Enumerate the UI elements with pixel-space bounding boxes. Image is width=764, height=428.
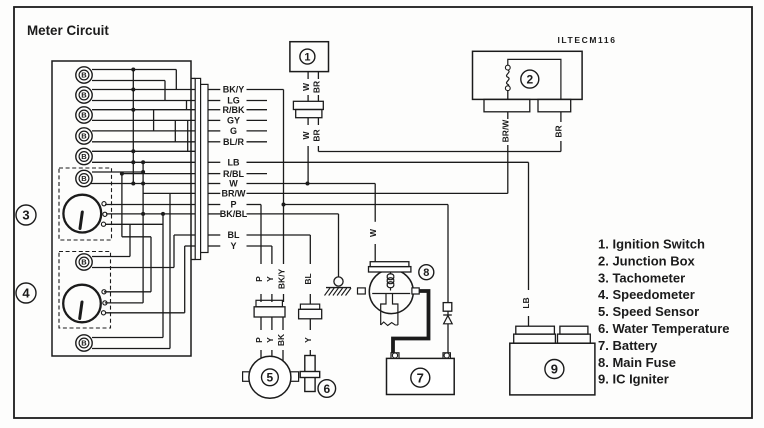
main fuse cap — [369, 267, 411, 272]
junction W row — [141, 182, 145, 186]
wire feed to main fuse / diode — [284, 204, 449, 206]
cascade wire GY row to BL/R row — [174, 120, 176, 141]
main fuse left tab — [358, 288, 366, 294]
svg-text:9. IC Igniter: 9. IC Igniter — [598, 372, 669, 387]
wire dead-end stub BL/R — [247, 141, 268, 143]
svg-text:BR/W: BR/W — [222, 189, 246, 199]
svg-text:3. Tachometer: 3. Tachometer — [598, 270, 685, 285]
svg-text:1. Ignition Switch: 1. Ignition Switch — [598, 237, 705, 252]
speedo terminal c — [101, 311, 105, 315]
junction BK/BL row 2 — [161, 212, 165, 216]
svg-text:BK/Y: BK/Y — [277, 269, 287, 290]
wire row y=120.4 (GY) — [92, 119, 195, 121]
wire speedo lamp top up to tach terminal c row — [92, 256, 130, 258]
IC igniter right tab — [558, 334, 591, 343]
junction tach lamp top — [141, 170, 145, 174]
wire row y=100.5 (LG) — [92, 100, 195, 102]
speed sensor right tab — [288, 372, 299, 382]
wire stub to label Y — [208, 245, 220, 247]
wire fuse to box bottom — [507, 91, 509, 100]
wire stub to label R/BK — [208, 109, 220, 111]
wire stub to label R/BL — [208, 173, 220, 175]
wire LB row down to speedo terminal b — [142, 162, 144, 303]
indicator lamp 2 — [76, 87, 92, 103]
svg-text:7: 7 — [417, 370, 424, 385]
wire stub to label GY — [208, 119, 220, 121]
junction BK/BL row — [141, 212, 145, 216]
wire BR down — [317, 146, 319, 152]
junction bus y=162.3 — [131, 160, 135, 164]
wire step box to bar top — [191, 77, 195, 79]
svg-text:R/BL: R/BL — [223, 169, 244, 179]
wire stub to label LG — [208, 100, 220, 102]
wire stub to label W — [208, 183, 220, 185]
bottom indicator lamp — [76, 335, 92, 351]
svg-text:Y: Y — [265, 337, 275, 343]
wire row y=213.9 (BK/BL) — [106, 213, 195, 215]
svg-text:8. Main Fuse: 8. Main Fuse — [598, 355, 676, 370]
speed sensor 5 body — [249, 356, 291, 398]
wire stub to label BK/BL — [208, 213, 220, 215]
ground terminal circle — [334, 277, 343, 286]
svg-text:W: W — [301, 131, 311, 140]
IC igniter 9 box — [510, 343, 595, 395]
tach terminal a — [102, 202, 106, 206]
svg-text:R/BK: R/BK — [223, 105, 245, 115]
wire W from switch — [307, 72, 309, 79]
wire dead-end stub R/BK — [247, 109, 268, 111]
svg-text:W: W — [368, 228, 378, 237]
speedo terminal a — [102, 290, 106, 294]
svg-text:B: B — [81, 71, 87, 80]
wire W below connector — [307, 118, 309, 125]
wire BR/W from label to junction box — [247, 192, 508, 194]
cascade wire bulb1-top to BK/Y — [92, 69, 176, 71]
junction bus y=89.5 — [131, 88, 135, 92]
tach terminal c — [101, 222, 105, 226]
junction box left tab — [484, 99, 530, 111]
fuse coil element — [387, 272, 394, 291]
junction box 2 outline — [473, 51, 583, 99]
label 6 water temp — [318, 380, 336, 398]
wire dead-end stub LG — [247, 100, 268, 102]
tachometer dashed enclosure — [59, 168, 112, 240]
svg-text:BK/Y: BK/Y — [223, 85, 245, 95]
junction R/BL row — [120, 172, 124, 176]
wire row y=235.0 (BL) — [174, 234, 195, 236]
wire P from label to speed sensor — [247, 204, 262, 206]
wire step box to bar bottom — [191, 259, 195, 261]
wire dead-end stub G — [247, 130, 268, 132]
wire BK/Y from label to speed sensor — [247, 89, 284, 91]
svg-text:LB: LB — [228, 158, 240, 168]
fuse terminal bottom — [505, 86, 510, 91]
wire P below connector — [260, 317, 262, 330]
svg-text:BL: BL — [303, 273, 313, 284]
svg-text:G: G — [230, 126, 237, 136]
connector bar left housing — [195, 78, 200, 259]
svg-text:BL/R: BL/R — [223, 137, 244, 147]
svg-text:2. Junction Box: 2. Junction Box — [598, 253, 696, 268]
battery 7 box — [387, 358, 455, 394]
svg-text:P: P — [254, 276, 264, 282]
svg-text:P: P — [254, 337, 264, 343]
junction box internal circuit — [508, 59, 561, 99]
wire BL from label to water temp sensor — [247, 234, 311, 236]
junction bus y=69.5 — [131, 68, 135, 72]
water temp sensor 6 body — [305, 356, 315, 392]
cascade wire GY row to spare pin row — [187, 120, 189, 151]
wire BL row down to speedo lamp bottom — [173, 235, 175, 268]
wire dead-end stub GY — [247, 119, 268, 121]
label 4 speedometer — [16, 283, 36, 303]
wire W to connector — [307, 95, 309, 101]
svg-text:5. Speed Sensor: 5. Speed Sensor — [598, 304, 699, 319]
indicator lamp 3 — [76, 107, 92, 123]
svg-text:4. Speedometer: 4. Speedometer — [598, 287, 695, 302]
wire bottom lamp bottom up to BR/W row — [92, 348, 170, 350]
indicator lamp 1 — [76, 67, 92, 83]
IC igniter left tab — [514, 334, 556, 343]
svg-text:B: B — [81, 91, 87, 100]
wire tach lamp top row — [92, 171, 143, 173]
svg-text:W: W — [301, 82, 311, 91]
svg-text:3: 3 — [22, 208, 29, 223]
wire R/BL to speedo terminal a — [121, 174, 123, 237]
svg-text:BR: BR — [311, 129, 321, 141]
battery left terminal — [391, 353, 399, 359]
wire stub to label BR/W — [208, 192, 220, 194]
wire row y=193.4 (BR/W) — [143, 192, 195, 194]
junction W ignition switch — [306, 182, 310, 186]
cascade wire LG row to R/BK row — [186, 101, 188, 110]
svg-text:GY: GY — [227, 116, 240, 126]
wire W from label to main fuse — [247, 183, 376, 185]
svg-text:5: 5 — [267, 371, 274, 385]
label 7 battery — [411, 368, 430, 387]
wire Y below connector — [309, 319, 311, 330]
svg-text:2: 2 — [526, 72, 533, 86]
battery right terminal — [443, 353, 450, 359]
main fuse 8 body circle — [369, 270, 413, 314]
wire row y=130.9 (G) — [92, 130, 195, 132]
wire Y from label to speed sensor — [247, 245, 272, 247]
wire row y=224.3 — [105, 223, 163, 225]
wire row y=173.6 (R/BL) — [122, 173, 195, 175]
wire stub to label BL/R — [208, 141, 220, 143]
wire row y=162.3 (LB) — [92, 161, 195, 163]
cascade wire bulb1-bottom to LG — [92, 80, 165, 82]
wire BR to junction box tab — [560, 112, 562, 122]
svg-text:Y: Y — [265, 276, 275, 282]
svg-text:4: 4 — [22, 286, 30, 301]
fuse element squiggle — [507, 70, 510, 86]
svg-text:9: 9 — [551, 362, 558, 377]
svg-text:ILTECM116: ILTECM116 — [557, 35, 616, 45]
wire LB from label to IC igniter — [247, 161, 529, 163]
inline fuse box — [443, 303, 452, 312]
speed sensor connector — [256, 300, 282, 307]
svg-text:6: 6 — [323, 382, 330, 396]
svg-text:Meter Circuit: Meter Circuit — [27, 23, 109, 38]
wire Y row down to speedo terminal c — [184, 246, 186, 313]
svg-text:BR: BR — [554, 125, 564, 137]
wire stub to label P — [208, 204, 220, 206]
wire row y=246.0 (Y) — [185, 245, 196, 247]
svg-text:7. Battery: 7. Battery — [598, 338, 658, 353]
ignition switch connector — [293, 101, 323, 109]
meter assembly box — [52, 61, 191, 356]
ground symbol — [326, 287, 351, 289]
wire row y=109.7 (R/BK) — [92, 109, 195, 111]
wire Y to sensor — [271, 350, 273, 358]
svg-text:B: B — [81, 152, 87, 161]
diode symbol — [443, 314, 452, 316]
wire stub to label BL — [208, 234, 220, 236]
tach terminal b — [103, 212, 107, 216]
svg-text:BL: BL — [228, 230, 240, 240]
svg-text:B: B — [81, 174, 87, 183]
svg-text:Y: Y — [230, 241, 236, 251]
wire BR below connector — [317, 118, 319, 125]
wire Y to sensor — [309, 350, 311, 356]
svg-text:B: B — [81, 111, 87, 120]
fuse terminal top — [505, 65, 510, 70]
speedometer dashed enclosure — [59, 252, 111, 329]
tachometer 3 dial — [63, 195, 101, 233]
speedometer illumination lamp — [76, 254, 92, 270]
ignition switch 1 box — [290, 42, 329, 72]
wire row y=151.3 — [92, 150, 195, 152]
wire BR to connector — [317, 95, 319, 101]
label 2 junction box — [521, 70, 539, 88]
junction bus y=151.3 — [131, 149, 135, 153]
wire row y=183.5 (W) — [91, 183, 195, 185]
junction BK/Y with fuse feed — [282, 203, 286, 207]
svg-text:B: B — [81, 132, 87, 141]
wire BK to sensor — [282, 350, 284, 362]
wire Y below connector — [271, 317, 273, 330]
wire BR from switch — [317, 72, 319, 79]
indicator lamp 4 — [76, 128, 92, 144]
wire BK/BL from label to ground — [247, 213, 339, 215]
speedo terminal b — [103, 301, 107, 305]
wire stub to label G — [208, 130, 220, 132]
label 8 main fuse — [419, 265, 434, 280]
junction LB row — [141, 160, 145, 164]
wire diode to battery — [447, 324, 449, 353]
fuse holder bracket — [372, 293, 410, 295]
wire stub to label LB — [208, 161, 220, 163]
svg-text:8: 8 — [423, 267, 429, 279]
indicator lamp 5 — [76, 148, 92, 164]
svg-text:BK/BL: BK/BL — [220, 209, 248, 219]
label 9 IC igniter — [545, 360, 564, 379]
wire dead-end stub R/BL — [247, 173, 268, 175]
water temp connector — [300, 304, 319, 309]
svg-text:BK: BK — [276, 333, 286, 346]
wire BK below connector — [282, 317, 284, 330]
svg-text:1: 1 — [304, 52, 310, 64]
wire bottom lamp top up to BK/BL row — [92, 337, 163, 339]
svg-text:W: W — [229, 179, 238, 189]
label 3 tachometer — [16, 205, 36, 225]
wire BR rise — [560, 141, 562, 152]
label 5 speed sensor — [262, 369, 279, 386]
cascade wire R/BK row to G row — [153, 110, 155, 131]
illumination bus vertical — [132, 70, 134, 184]
svg-text:B: B — [81, 339, 87, 348]
connector bar right housing — [201, 84, 208, 252]
junction bus y=183.5 — [131, 182, 135, 186]
wire row y=89.5 (BK/Y) — [92, 89, 195, 91]
wire W down to W line — [307, 146, 309, 184]
tachometer illumination lamp — [76, 170, 92, 186]
junction box right tab — [538, 99, 571, 111]
wire P to sensor — [260, 350, 262, 359]
wire stub to label BK/Y — [208, 89, 220, 91]
wire below fuse box — [447, 311, 449, 315]
svg-text:Y: Y — [303, 337, 313, 343]
speedometer 4 dial — [63, 285, 101, 323]
wire row y=141.8 (BL/R) — [92, 141, 195, 143]
svg-text:LB: LB — [521, 297, 531, 308]
thick battery cable — [393, 291, 429, 353]
label 1 ignition switch — [300, 49, 315, 64]
svg-text:BR: BR — [311, 81, 321, 93]
main fuse right tab — [412, 288, 419, 294]
svg-text:BR/W: BR/W — [501, 119, 511, 143]
svg-text:B: B — [81, 258, 87, 267]
speed sensor left tab — [243, 372, 255, 382]
svg-text:6. Water Temperature: 6. Water Temperature — [598, 321, 730, 336]
wire row y=204.5 (P) — [105, 204, 195, 206]
junction bus y=109.7 — [131, 108, 135, 112]
wire BR across to junction box — [318, 151, 561, 153]
